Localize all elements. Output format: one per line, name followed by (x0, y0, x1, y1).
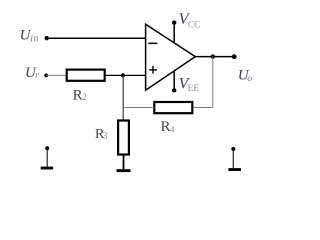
label R3 (95, 127, 108, 142)
resistor R4 (154, 102, 192, 113)
node U_o terminal (232, 54, 237, 59)
wire U_r to R2 (46, 74, 66, 76)
wire R3 to ground (123, 156, 125, 170)
node bottom-right reference terminal (231, 147, 235, 151)
VEE supply stub (173, 71, 175, 90)
wire bottom-right stub (232, 149, 234, 168)
node U_in terminal (45, 36, 49, 40)
svg-text:o: o (247, 74, 252, 84)
node bottom-left reference terminal (45, 146, 49, 150)
node U_r terminal (44, 74, 48, 78)
node junction at + input (121, 73, 125, 77)
label U_o (238, 67, 253, 84)
VCC supply stub (173, 23, 175, 43)
label U_r (25, 65, 39, 81)
op-amp U1 (146, 24, 196, 90)
wire R2 to non-inverting input (106, 74, 146, 76)
svg-text:R: R (161, 119, 171, 135)
label V_CC (179, 11, 201, 30)
node VCC terminal (172, 21, 176, 25)
svg-text:4: 4 (170, 124, 175, 134)
svg-text:2: 2 (82, 92, 87, 102)
wire U_in to op-amp inverting input (47, 37, 146, 39)
wire feedback R4 right (194, 107, 213, 109)
svg-text:CC: CC (188, 20, 201, 30)
resistor R3 (118, 121, 129, 155)
svg-text:EE: EE (188, 84, 200, 94)
resistor R2 (67, 70, 105, 81)
node output junction (211, 54, 215, 58)
node VEE terminal (172, 88, 176, 92)
ground bottom-right (228, 168, 241, 171)
op-amp minus symbol (148, 43, 157, 45)
wire feedback R4 left to node (123, 107, 154, 109)
op-amp plus symbol (149, 66, 157, 74)
svg-text:R: R (73, 87, 83, 103)
svg-text:3: 3 (103, 131, 108, 141)
wire bottom-left stub (46, 148, 48, 166)
wire junction down to R3 (122, 75, 124, 120)
wire feedback vertical from output junction (212, 57, 214, 108)
svg-text:in: in (30, 34, 39, 45)
label U_in (20, 28, 39, 45)
wire op-amp output (195, 56, 234, 58)
svg-text:r: r (35, 70, 39, 80)
ground under R3 (117, 169, 131, 172)
ground bottom-left (41, 167, 54, 170)
label V_EE (179, 76, 200, 95)
label R4 (161, 119, 176, 135)
label R2 (73, 87, 87, 103)
